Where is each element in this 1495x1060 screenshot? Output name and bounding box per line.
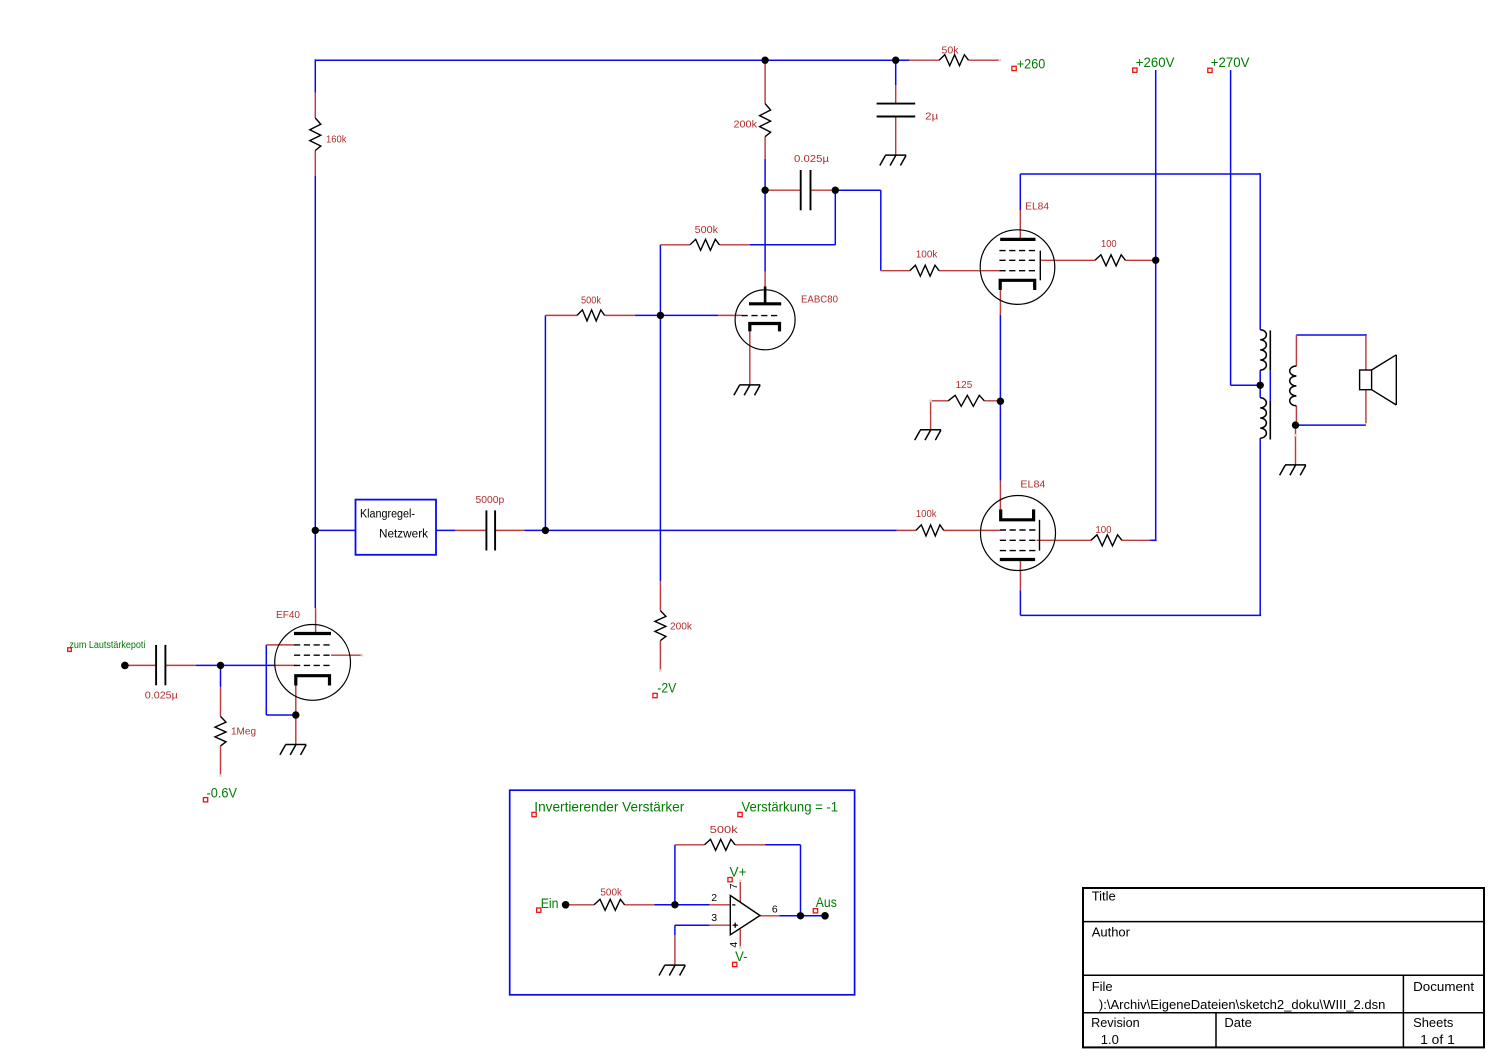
svg-text:50k: 50k xyxy=(942,45,960,57)
pin 100-bottom right xyxy=(1122,539,1151,541)
port square Aus xyxy=(813,909,817,913)
resistor 500k (upper) xyxy=(690,239,719,250)
pin secondary bottom xyxy=(1295,406,1297,425)
svg-text:125: 125 xyxy=(956,379,973,391)
svg-text:EF40: EF40 xyxy=(276,609,300,621)
svg-text:-0.6V: -0.6V xyxy=(207,784,238,800)
pin end EF40 g2 xyxy=(361,654,364,657)
pin EABC80 grid xyxy=(718,314,742,316)
port square -2V xyxy=(653,693,657,697)
resistor 100 (upper) xyxy=(1095,255,1125,266)
tube EF40 xyxy=(275,625,351,701)
pin 5000p left xyxy=(455,529,486,531)
ground (EABC80 cathode) xyxy=(739,384,760,386)
ground (125 resistor) xyxy=(920,429,941,431)
pin 0.025u right xyxy=(811,189,836,191)
svg-text:1 of 1: 1 of 1 xyxy=(1420,1032,1455,1047)
junction +260V rail / 100 xyxy=(1152,257,1159,264)
pin EL84-bottom cathode xyxy=(999,481,1001,510)
junction opamp output/feedback xyxy=(797,912,804,919)
svg-text:0.025µ: 0.025µ xyxy=(794,153,829,165)
port square V- xyxy=(733,962,737,966)
svg-text:200k: 200k xyxy=(734,119,758,131)
capacitor 5000p xyxy=(485,510,487,550)
wire speaker top drop xyxy=(1365,334,1367,336)
pin opamp 6 xyxy=(760,915,779,917)
junction EABC80 plate node xyxy=(761,187,768,194)
svg-text:Revision: Revision xyxy=(1091,1015,1140,1030)
pin 500k-lower left xyxy=(545,314,577,316)
wire 125 to gnd xyxy=(931,401,949,430)
wire +260V rail xyxy=(1155,70,1157,540)
svg-text:):\Archiv\EigeneDateien\sketch: ):\Archiv\EigeneDateien\sketch2_doku\WII… xyxy=(1099,997,1386,1012)
pin opamp 7 xyxy=(739,881,741,902)
pin end 200k bias xyxy=(659,669,662,672)
svg-text:Ein: Ein xyxy=(541,895,559,911)
svg-text:zum Lautstärkepoti: zum Lautstärkepoti xyxy=(69,640,145,651)
ground (2u cap) xyxy=(885,154,906,156)
resistor 160k xyxy=(310,118,321,151)
pin 200k-bias top xyxy=(659,581,661,610)
capacitor 0.025u (input) xyxy=(155,645,157,685)
port square Verstaerkung xyxy=(738,812,742,816)
junction coupling cap right xyxy=(832,187,839,194)
svg-text:7: 7 xyxy=(728,883,740,889)
wire grid-node vertical xyxy=(659,245,661,581)
pin speaker top xyxy=(1365,335,1367,370)
wire input cap to node xyxy=(196,664,221,666)
wire 200k to plate dot xyxy=(764,159,766,190)
wire secondary bottom xyxy=(1296,424,1366,426)
wire to center tap xyxy=(1231,384,1261,386)
pin opamp 4 xyxy=(739,929,741,947)
svg-text:2µ: 2µ xyxy=(925,111,938,123)
tube EABC80 xyxy=(735,290,795,350)
pin 100k-upper right xyxy=(939,270,999,272)
wire rail corner xyxy=(1149,539,1157,541)
transformer core upper xyxy=(1269,330,1271,370)
pin 200k bottom xyxy=(764,137,766,159)
pin end 50k xyxy=(999,59,1002,62)
wire opamp input run xyxy=(654,904,709,906)
pin input-cap left xyxy=(125,664,156,666)
resistor 200k (bias) xyxy=(655,611,666,641)
svg-text:3: 3 xyxy=(711,912,717,924)
junction transformer center tap xyxy=(1257,382,1264,389)
speaker LS1 xyxy=(1360,370,1372,390)
svg-text:4: 4 xyxy=(728,942,740,948)
resistor 1Meg xyxy=(215,716,226,746)
tube EL84 (top) xyxy=(980,230,1055,305)
svg-text:1Meg: 1Meg xyxy=(231,726,256,738)
wire EABC80 cathode to gnd xyxy=(749,331,751,384)
wire cathode rail xyxy=(999,315,1001,481)
wire left rail xyxy=(314,176,316,608)
port square zum Lautstaerkepoti xyxy=(68,648,72,652)
pin end 125 xyxy=(929,400,932,403)
pin 100k-lower right xyxy=(944,529,1000,531)
svg-text:100k: 100k xyxy=(916,248,938,260)
junction secondary bottom xyxy=(1292,421,1299,428)
pin 100k-lower left xyxy=(897,529,916,531)
svg-text:100: 100 xyxy=(1095,524,1111,536)
pin 50k left xyxy=(910,59,939,61)
port square -0.6V xyxy=(203,798,207,802)
svg-text:0.025µ: 0.025µ xyxy=(145,690,178,702)
resistor 100k (lower) xyxy=(916,525,944,536)
resistor 100 (lower) xyxy=(1091,535,1122,546)
pin 1Meg top xyxy=(220,687,222,717)
pin EL84-top plate xyxy=(1019,210,1021,239)
svg-text:+260V: +260V xyxy=(1136,54,1175,70)
wire opamp output xyxy=(779,915,825,917)
pin EABC80 plate xyxy=(764,272,766,287)
wire box to 5000p xyxy=(436,529,455,531)
wire secondary to gnd xyxy=(1295,425,1297,465)
svg-text:500k: 500k xyxy=(600,886,622,898)
svg-text:160k: 160k xyxy=(326,134,347,146)
svg-text:+260: +260 xyxy=(1017,55,1046,71)
svg-text:-2V: -2V xyxy=(657,679,677,695)
wire feedback run xyxy=(750,244,835,246)
svg-text:EABC80: EABC80 xyxy=(801,294,838,306)
pin op500k-in left xyxy=(566,904,595,906)
inductor primary upper xyxy=(1260,330,1266,370)
svg-text:100: 100 xyxy=(1101,238,1117,250)
inductor secondary xyxy=(1290,366,1297,406)
pin 125 right xyxy=(984,400,1000,402)
pin input-cap right xyxy=(165,664,196,666)
wire lead 160k bottom xyxy=(314,151,316,177)
svg-text:Aus: Aus xyxy=(816,894,837,910)
pin EF40 g2 xyxy=(331,654,362,656)
transformer core lower xyxy=(1269,401,1271,440)
pin 50k right xyxy=(969,59,1000,61)
wire core link xyxy=(1269,370,1271,401)
svg-text:500k: 500k xyxy=(581,294,602,306)
wire bus to 2u xyxy=(895,60,897,85)
wire opamp feedback left xyxy=(674,845,676,905)
pin end 1Meg xyxy=(219,774,222,777)
junction 5000p output node xyxy=(542,527,549,534)
wire opamp feedback drop xyxy=(800,845,802,916)
pin EL84-top g2 xyxy=(1040,259,1095,261)
terminal input xyxy=(121,662,129,670)
wire lower plate bus xyxy=(1020,614,1261,616)
svg-text:1.0: 1.0 xyxy=(1101,1032,1119,1047)
pin op500k-in right xyxy=(625,904,655,906)
wire opamp pin3 down xyxy=(674,925,676,935)
resistor 100k (upper) xyxy=(910,265,939,276)
ground (EF40 cathode) xyxy=(285,744,306,746)
op-amp plus sign xyxy=(733,924,738,926)
svg-text:100k: 100k xyxy=(916,508,937,520)
wire node to lower 100k xyxy=(545,529,896,531)
pin secondary top xyxy=(1295,335,1297,366)
wire center tap link xyxy=(1259,370,1261,398)
pin end V- xyxy=(739,946,742,949)
wire down to transformer xyxy=(1259,173,1261,330)
wire plate dot down xyxy=(764,190,766,271)
block Klangregel-Netzwerk box xyxy=(356,500,437,555)
pin op500k-fb right xyxy=(735,844,765,846)
pin 2u top xyxy=(895,85,897,103)
ground (speaker/secondary) xyxy=(1285,464,1306,466)
wire secondary top xyxy=(1296,334,1366,336)
terminal Ein xyxy=(562,901,570,909)
pin 200k-bias bottom xyxy=(659,641,661,671)
svg-text:V+: V+ xyxy=(730,863,747,879)
pin 5000p right xyxy=(495,529,524,531)
port square Ein xyxy=(537,908,541,912)
pin 500k-upper left xyxy=(660,244,690,246)
wire 5000p to node xyxy=(524,529,545,531)
svg-text:Invertierender Verstärker: Invertierender Verstärker xyxy=(534,799,684,815)
svg-text:500k: 500k xyxy=(695,224,719,236)
junction EABC80 grid node xyxy=(657,312,664,319)
junction at 50k/2u xyxy=(892,57,899,64)
wire 500k to grid node xyxy=(635,314,661,316)
svg-text:Verstärkung = -1: Verstärkung = -1 xyxy=(742,799,839,815)
svg-text:Title: Title xyxy=(1092,889,1116,904)
svg-text:Date: Date xyxy=(1224,1015,1251,1030)
wire opamp feedback right xyxy=(765,844,800,846)
pin EF40 plate xyxy=(315,608,317,633)
resistor 125 xyxy=(948,395,984,406)
junction EF40 cathode xyxy=(292,711,299,718)
svg-text:5000p: 5000p xyxy=(476,494,505,506)
junction left rail / tone box xyxy=(312,527,319,534)
resistor 500k (lower) xyxy=(577,310,605,321)
resistor 500k (opamp feedback) xyxy=(705,839,736,850)
capacitor 2u xyxy=(877,103,916,105)
pin 100-top right xyxy=(1125,259,1155,261)
port square +270V xyxy=(1208,68,1212,72)
wire top bus xyxy=(315,59,895,61)
svg-text:Document: Document xyxy=(1413,979,1474,994)
tube EL84 (bottom) xyxy=(981,496,1056,571)
wire node up to 500k xyxy=(544,315,546,530)
pin 2u bottom xyxy=(895,117,897,156)
wire xyxy=(314,59,316,93)
terminal Aus xyxy=(821,912,829,920)
pin opamp 2 xyxy=(710,904,731,906)
wire cap-right down xyxy=(834,190,836,245)
wire +270V rail xyxy=(1230,70,1232,385)
wire EF40 cathode to gnd xyxy=(295,686,297,745)
svg-text:Sheets: Sheets xyxy=(1413,1015,1454,1030)
junction input node xyxy=(217,662,224,669)
wire node to 1Meg xyxy=(220,665,222,687)
pin EF40 g1 xyxy=(275,664,296,666)
pin 200k top xyxy=(764,62,766,104)
junction opamp inverting input xyxy=(671,901,678,908)
wire corner down to 100k xyxy=(880,190,882,271)
svg-text:+270V: +270V xyxy=(1211,54,1250,70)
pin 500k-upper right xyxy=(719,244,750,246)
wire bracket to cathode xyxy=(266,714,296,716)
wire transformer to plate bus xyxy=(1259,438,1261,615)
wire lead 160k top xyxy=(314,93,316,118)
wire cap-right to corner xyxy=(835,189,881,191)
resistor 200k (plate load) xyxy=(760,104,771,137)
pin end secondary xyxy=(1294,434,1297,437)
svg-text:Author: Author xyxy=(1092,925,1131,940)
pin 0.025u left xyxy=(765,189,801,191)
junction cathode rail / 125 xyxy=(997,398,1004,405)
wire opamp gnd lead xyxy=(674,935,676,965)
block inverting-amp box xyxy=(510,790,855,995)
wire grid node to EABC80 xyxy=(660,314,718,316)
pin EL84-bottom plate xyxy=(1019,560,1021,591)
port square +260 xyxy=(1012,66,1016,70)
wire EL84 plate up xyxy=(1019,174,1021,210)
svg-text:EL84: EL84 xyxy=(1020,478,1045,490)
svg-text:2: 2 xyxy=(711,892,717,904)
wire g3 bracket vertical xyxy=(265,645,267,715)
svg-text:200k: 200k xyxy=(670,620,693,632)
resistor 50k xyxy=(939,55,968,66)
title block frame xyxy=(1083,888,1484,1047)
svg-text:V-: V- xyxy=(735,948,748,964)
op-amp U1 triangle xyxy=(730,896,760,935)
wire to tone box xyxy=(315,529,355,531)
svg-text:Netzwerk: Netzwerk xyxy=(379,529,428,541)
pin end V+ xyxy=(739,880,742,883)
pin EF40 g3 xyxy=(266,644,294,646)
pin 500k-lower right xyxy=(605,314,635,316)
pin EL84-top cathode xyxy=(999,290,1001,315)
svg-text:500k: 500k xyxy=(710,824,739,836)
wire bus to 50k xyxy=(896,59,910,61)
svg-text:6: 6 xyxy=(772,904,778,916)
wire opamp pin3 left xyxy=(675,924,710,926)
pin 1Meg bottom xyxy=(220,746,222,776)
wire lower plate down xyxy=(1019,590,1021,615)
svg-text:Klangregel-: Klangregel- xyxy=(360,508,415,520)
port square +260V xyxy=(1133,68,1137,72)
port square V+ xyxy=(728,878,732,882)
svg-text:File: File xyxy=(1092,979,1113,994)
resistor 500k (opamp input) xyxy=(594,899,625,910)
pin op500k-fb left xyxy=(675,844,705,846)
inductor primary lower xyxy=(1260,398,1266,438)
junction at 200k/top bus xyxy=(761,57,768,64)
pin opamp 3 xyxy=(710,924,731,926)
port square Invertierender xyxy=(532,812,536,816)
capacitor 0.025u (coupling) xyxy=(800,170,802,210)
wire top-right bus xyxy=(1020,173,1260,175)
wire node to EF40 g1 xyxy=(221,664,275,666)
svg-text:EL84: EL84 xyxy=(1025,201,1049,213)
ground (opamp +input) xyxy=(664,964,685,966)
pin speaker bottom xyxy=(1365,390,1367,424)
pin 100k-upper left xyxy=(881,270,910,272)
pin EL84-bottom g2 xyxy=(1037,539,1091,541)
op-amp minus sign xyxy=(732,904,735,906)
